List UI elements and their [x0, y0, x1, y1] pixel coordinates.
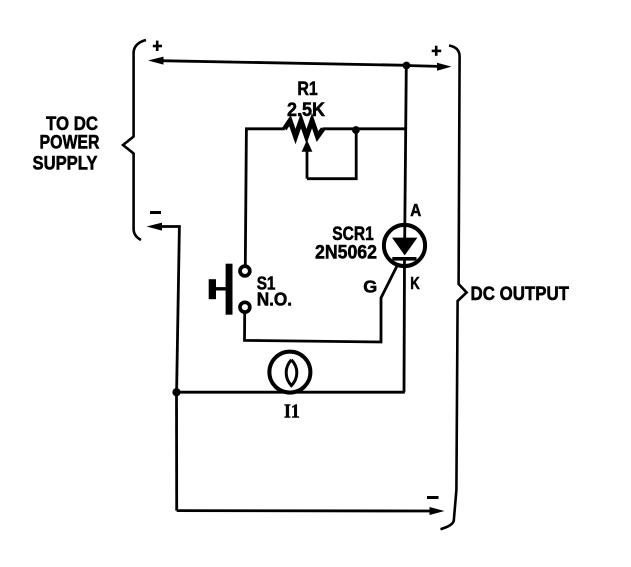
wire minus branch (arrow + vertical)	[160, 227, 179, 393]
wire resistor left + drop to switch S1	[245, 129, 284, 266]
terminal top	[240, 266, 250, 276]
svg-text:N.O.: N.O.	[257, 290, 292, 310]
wire resistor right	[323, 127, 406, 130]
resistor R1 (potentiometer zigzag)	[285, 121, 324, 137]
arrowhead left (to + supply)	[148, 57, 164, 65]
wire lamp rail	[177, 391, 405, 394]
minus sign bottom right	[427, 496, 439, 499]
svg-text:A: A	[410, 200, 421, 220]
wire to + dc output	[407, 64, 439, 68]
lamp I1 (circle)	[269, 352, 310, 393]
svg-text:DC OUTPUT: DC OUTPUT	[471, 283, 570, 305]
SCR1 cathode bar	[392, 257, 416, 261]
SCR1 body (circle)	[384, 225, 425, 266]
terminal bottom	[240, 302, 250, 312]
lamp I1 filament loop	[286, 360, 297, 386]
wire gate diagonal	[381, 264, 398, 298]
wire wiper loop	[307, 130, 356, 179]
button cap	[209, 279, 216, 299]
junction dot lamp left	[172, 388, 180, 396]
arrowhead right (to + dc output)	[437, 63, 452, 71]
SCR1 triangle	[392, 238, 417, 256]
button stem	[215, 287, 226, 290]
potentiometer wiper arrow	[302, 140, 313, 152]
wire anode drop	[405, 66, 407, 239]
wire switch to gate	[245, 298, 382, 343]
svg-text:G: G	[363, 276, 377, 296]
arrowhead right (to - dc output)	[430, 507, 445, 515]
actuator bar	[226, 264, 233, 315]
left brace (to dc power supply)	[123, 40, 146, 240]
junction dot wiper tap	[352, 126, 360, 134]
svg-text:2N5062: 2N5062	[315, 242, 377, 264]
svg-text:R1: R1	[297, 78, 318, 100]
svg-text:POWER: POWER	[40, 131, 100, 153]
plus sign top left	[153, 41, 162, 51]
wire cathode drop	[403, 259, 406, 392]
svg-text:2.5K: 2.5K	[287, 99, 325, 121]
minus sign top left	[150, 211, 161, 214]
switch S1 pushbutton	[209, 264, 250, 315]
svg-text:SUPPLY: SUPPLY	[33, 153, 98, 175]
svg-text:I1: I1	[284, 401, 300, 423]
arrowhead left (to - supply)	[147, 223, 163, 231]
svg-text:K: K	[410, 273, 420, 293]
right brace (dc output)	[441, 46, 467, 530]
junction dot top	[403, 62, 411, 70]
wire left vertical lower	[175, 392, 178, 510]
wire bottom rail	[177, 509, 431, 512]
plus sign top right	[432, 46, 442, 56]
wire top positive rail	[160, 61, 407, 66]
